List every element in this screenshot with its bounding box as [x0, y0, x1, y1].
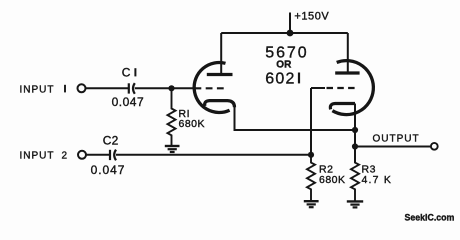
wire V1b cathode down to R3 — [354, 104, 356, 163]
svg-text:680K: 680K — [179, 118, 206, 130]
node cathode junction — [352, 127, 358, 133]
svg-text:4.7 K: 4.7 K — [362, 174, 393, 186]
wire V1a cathode to cathode bus — [235, 106, 356, 130]
capacitor C1 — [129, 83, 135, 94]
svg-text:602: 602 — [265, 70, 295, 87]
+150V supply lead — [289, 13, 291, 34]
node B+ junction — [287, 30, 294, 37]
input 1 terminal — [78, 84, 86, 92]
triode V1b envelope — [332, 61, 373, 115]
svg-text:C: C — [122, 65, 131, 79]
ground for R2 — [304, 201, 319, 207]
V1b plate — [335, 33, 359, 73]
V1a grid (dashed) — [195, 87, 227, 89]
svg-text:0.047: 0.047 — [112, 95, 145, 109]
V1b grid (dashed) — [311, 87, 359, 89]
svg-text:OUTPUT: OUTPUT — [373, 134, 420, 145]
ground for R1 — [165, 146, 180, 152]
svg-text:0.047: 0.047 — [91, 163, 126, 177]
wire C2 to grid 2 node — [116, 154, 311, 156]
V1a cathode — [205, 101, 235, 108]
svg-text:SeekIC.com: SeekIC.com — [405, 213, 455, 223]
svg-text:C2: C2 — [103, 134, 119, 148]
capacitor C2 — [110, 150, 116, 161]
resistor R2 — [307, 155, 315, 201]
svg-text:INPUT: INPUT — [20, 151, 55, 162]
node grid 2 junction — [308, 152, 314, 158]
V1b cathode — [330, 104, 355, 110]
V1a plate — [207, 33, 233, 75]
node grid 1 junction — [168, 85, 174, 91]
output terminal — [431, 143, 438, 150]
wire output — [355, 146, 431, 148]
resistor R3 — [351, 147, 359, 201]
ground for R3 — [347, 201, 363, 207]
svg-text:INPUT: INPUT — [20, 85, 55, 96]
triode V1a envelope — [194, 62, 229, 112]
resistor R1 — [168, 88, 176, 146]
wire C1 to grid node — [135, 87, 194, 89]
wire input 2 to C2 — [86, 154, 109, 156]
node output junction — [352, 143, 358, 149]
svg-text:+150V: +150V — [294, 10, 329, 22]
wire plate supply rail — [221, 32, 348, 34]
input 2 terminal — [78, 151, 86, 159]
svg-text:OR: OR — [276, 60, 292, 71]
wire input 1 to C1 — [86, 87, 128, 89]
svg-text:2: 2 — [62, 151, 68, 162]
svg-text:680K: 680K — [319, 174, 346, 186]
wire grid 2 node up to V1b grid — [310, 88, 312, 155]
